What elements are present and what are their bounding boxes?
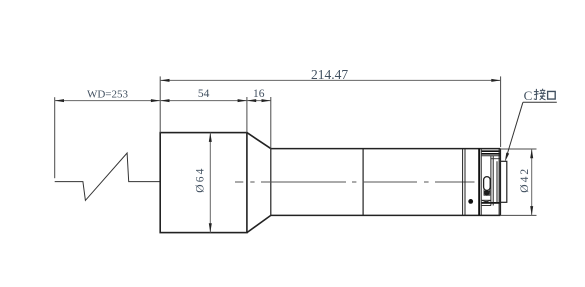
rear end line b <box>499 149 501 216</box>
clamp bar thin line <box>480 149 482 216</box>
leader arrowhead <box>505 153 509 162</box>
label 口 glyph <box>548 91 556 99</box>
tube joint line <box>362 149 364 216</box>
dim WD left arrow <box>55 99 64 102</box>
svg-text:WD=253: WD=253 <box>87 88 129 100</box>
main tube bottom edge <box>271 214 501 216</box>
dim 54 right arrow <box>238 99 247 102</box>
ring band bottom lines <box>482 199 491 201</box>
dim Ø64 line <box>209 133 211 233</box>
dim 16 right extension <box>270 97 272 149</box>
dim Ø42 bottom extension <box>500 214 536 216</box>
dim WD line <box>55 100 161 102</box>
taper end joint line <box>270 149 272 216</box>
inner vertical line c <box>496 161 498 203</box>
dim Ø64 bottom arrow <box>209 223 212 232</box>
svg-text:Ø42: Ø42 <box>519 167 531 193</box>
dim 16 left arrow <box>247 99 256 102</box>
centerline dash-dot <box>235 181 475 183</box>
dim 214.47 left extension <box>159 76 161 132</box>
svg-text:16: 16 <box>253 88 265 100</box>
wd left extension line <box>54 97 56 178</box>
dim 54 left arrow <box>160 99 169 102</box>
svg-text:214.47: 214.47 <box>311 67 348 82</box>
dim 214.47 line <box>160 79 500 81</box>
ring band top lines <box>482 150 501 152</box>
dim WD right arrow <box>151 99 160 102</box>
svg-text:C: C <box>524 88 533 103</box>
inner vertical line a <box>490 156 492 206</box>
dim Ø42 line <box>531 149 533 215</box>
object line with Z break (left) <box>55 153 161 200</box>
main tube top edge <box>271 148 501 150</box>
dim 54 line <box>160 100 247 102</box>
clamp screw base outline <box>484 191 490 196</box>
front barrel Ø64 outline <box>160 133 247 233</box>
dim Ø42 top arrow <box>530 149 533 158</box>
leader line for C mount <box>506 102 523 158</box>
dim Ø42 top extension <box>500 148 536 150</box>
c-mount stub <box>500 161 506 202</box>
dim Ø64 top arrow <box>209 133 212 142</box>
set screw dot <box>468 199 473 204</box>
clamp capsule slot <box>484 177 491 191</box>
taper top edge <box>247 133 271 149</box>
rear end line a <box>498 149 500 216</box>
dim 214.47 left arrow <box>160 79 169 82</box>
rear ring thin line b <box>464 149 466 216</box>
leader shoulder <box>523 101 557 103</box>
taper bottom edge <box>247 215 271 232</box>
inner vertical line b <box>492 156 494 206</box>
dim 214.47 right arrow <box>491 79 500 82</box>
svg-text:54: 54 <box>198 88 210 100</box>
heavy clamp bar <box>478 149 480 216</box>
dim Ø42 bottom arrow <box>530 206 533 215</box>
dim 16 line <box>247 100 271 102</box>
cross marks under capsule <box>482 201 491 203</box>
dim 214.47 right extension <box>500 76 502 147</box>
svg-text:Ø64: Ø64 <box>195 166 207 192</box>
inner step line <box>491 158 500 160</box>
dim 54 right extension <box>246 97 248 133</box>
clamp screw head <box>484 190 489 196</box>
dim 16 right arrow <box>262 99 271 102</box>
rear ring thin line a <box>462 149 464 216</box>
label 接 glyph <box>534 89 546 100</box>
